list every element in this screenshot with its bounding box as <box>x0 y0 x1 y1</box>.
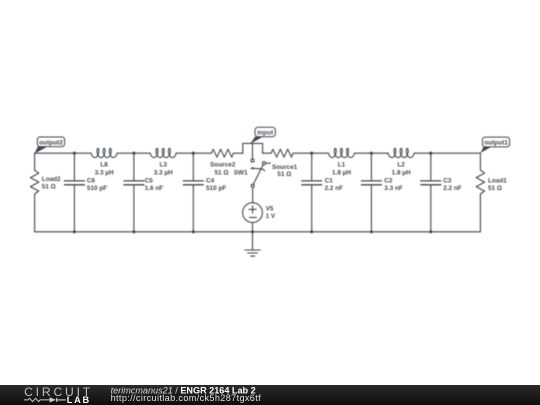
junction top C5 <box>132 152 135 155</box>
svg-text:Load2: Load2 <box>42 176 61 183</box>
svg-text:510 pF: 510 pF <box>87 185 107 192</box>
svg-text:3.3 µH: 3.3 µH <box>154 169 173 176</box>
wire left vertical <box>34 153 36 232</box>
capacitor C3 <box>421 153 441 232</box>
node input flag <box>250 127 275 144</box>
svg-text:http://circuitlab.com/ck5h287t: http://circuitlab.com/ck5h287tgx6tf <box>111 393 262 403</box>
junction top C6 <box>73 152 76 155</box>
junction top C4 <box>192 152 195 155</box>
svg-text:Load1: Load1 <box>488 178 507 185</box>
wire top rail right <box>263 152 481 154</box>
svg-text:51 Ω: 51 Ω <box>214 169 228 176</box>
capacitor C4 <box>183 153 203 232</box>
junction bottom C6 <box>73 230 76 233</box>
wire raised input segment <box>243 143 263 153</box>
capacitor C5 <box>124 153 144 232</box>
svg-text:C4: C4 <box>206 178 215 185</box>
resistor Source1 <box>271 149 293 157</box>
svg-text:L1: L1 <box>338 162 346 169</box>
junction top C1 <box>310 152 313 155</box>
svg-text:1.8 µH: 1.8 µH <box>392 169 411 176</box>
wire right vertical <box>479 153 481 232</box>
resistor Source2 <box>211 149 233 157</box>
svg-text:1.6 nF: 1.6 nF <box>145 185 164 192</box>
junction bottom C3 <box>429 230 432 233</box>
ground <box>245 232 261 256</box>
svg-text:51 Ω: 51 Ω <box>277 171 291 178</box>
inductor L1 <box>328 148 354 157</box>
svg-text:output2: output2 <box>39 139 63 146</box>
svg-text:C1: C1 <box>325 178 334 185</box>
svg-text:51 Ω: 51 Ω <box>488 185 502 192</box>
logo diode <box>50 397 56 402</box>
svg-text:output1: output1 <box>484 140 508 147</box>
voltage source V5 <box>243 187 263 232</box>
junction bottom C4 <box>192 230 195 233</box>
svg-text:C3: C3 <box>443 178 452 185</box>
svg-text:L2: L2 <box>397 162 405 169</box>
junction bottom V5 <box>251 230 254 233</box>
svg-text:Source1: Source1 <box>272 164 298 171</box>
resistor Load2 <box>30 170 38 194</box>
svg-text:input: input <box>257 130 274 137</box>
svg-text:3.3 µH: 3.3 µH <box>95 169 114 176</box>
capacitor C6 <box>64 153 84 232</box>
svg-text:L8: L8 <box>100 162 108 169</box>
junction bottom C5 <box>132 230 135 233</box>
svg-text:C5: C5 <box>145 178 154 185</box>
junction bottom C1 <box>310 230 313 233</box>
svg-text:V5: V5 <box>266 205 274 212</box>
svg-text:3.3 nF: 3.3 nF <box>384 185 403 192</box>
svg-text:1.8 µH: 1.8 µH <box>332 169 351 176</box>
inductor L3 <box>150 148 176 157</box>
svg-text:SW1: SW1 <box>234 170 248 177</box>
svg-text:2.2 nF: 2.2 nF <box>443 185 462 192</box>
resistor Load1 <box>476 170 484 194</box>
junction top C2 <box>370 152 373 155</box>
svg-text:Source2: Source2 <box>210 162 236 169</box>
wire top rail left <box>35 152 243 154</box>
svg-text:51 Ω: 51 Ω <box>42 184 56 191</box>
svg-text:LAB: LAB <box>67 395 91 405</box>
svg-text:1 V: 1 V <box>266 213 276 220</box>
svg-text:C2: C2 <box>384 178 393 185</box>
junction bottom C2 <box>370 230 373 233</box>
switch SW1 <box>250 143 270 187</box>
footer bar <box>0 385 540 405</box>
junction top C3 <box>429 152 432 155</box>
capacitor C2 <box>361 153 381 232</box>
node output1 flag <box>480 137 509 153</box>
inductor L2 <box>388 148 414 157</box>
capacitor C1 <box>302 153 322 232</box>
logo wire and resistor <box>24 398 50 401</box>
svg-text:L3: L3 <box>159 162 167 169</box>
inductor L8 <box>91 148 117 157</box>
wire bottom rail <box>35 231 481 233</box>
node output2 flag <box>34 137 64 154</box>
svg-text:C6: C6 <box>87 178 96 185</box>
svg-text:2.2 nF: 2.2 nF <box>325 185 344 192</box>
svg-text:510 pF: 510 pF <box>206 185 226 192</box>
